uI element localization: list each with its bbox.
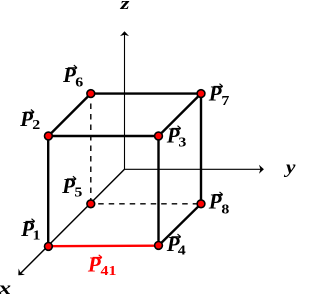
svg-text:z: z bbox=[119, 0, 129, 13]
cube edge P6-P7 (back top) bbox=[91, 92, 201, 94]
dashed hidden edge P5-P8 bbox=[98, 203, 201, 205]
label P8 bbox=[208, 190, 230, 218]
svg-text:3: 3 bbox=[178, 136, 186, 151]
axis label z bbox=[119, 0, 129, 13]
svg-text:x: x bbox=[0, 278, 11, 294]
vertex dot P1 bbox=[45, 243, 53, 251]
cube edge P4-P8 (bottom-right receding) bbox=[159, 204, 202, 246]
svg-text:6: 6 bbox=[75, 76, 83, 91]
svg-text:2: 2 bbox=[32, 118, 40, 133]
svg-text:1: 1 bbox=[33, 228, 41, 243]
axis label y bbox=[284, 158, 296, 178]
label P7 bbox=[208, 81, 230, 108]
svg-text:5: 5 bbox=[74, 185, 82, 200]
svg-text:y: y bbox=[284, 158, 296, 178]
svg-text:7: 7 bbox=[221, 94, 230, 109]
svg-text:P: P bbox=[62, 63, 76, 87]
red edge P1-P4 (vector P41) bbox=[48, 244, 158, 247]
cube edge P7-P8 (back right vertical) bbox=[200, 94, 202, 204]
cube edge P3-P4 (front right vertical) bbox=[157, 136, 159, 246]
svg-text:P: P bbox=[87, 253, 101, 277]
label P2 bbox=[19, 107, 40, 132]
vertex dot P8 bbox=[197, 200, 205, 208]
dashed hidden edge P6-P5 bbox=[90, 104, 92, 204]
vertex dot P5 bbox=[87, 200, 95, 208]
label P4 bbox=[166, 232, 187, 258]
svg-text:P: P bbox=[208, 81, 222, 105]
vertex dot P7 bbox=[197, 90, 205, 98]
vertex dot P2 bbox=[45, 132, 53, 140]
label P5 bbox=[61, 174, 82, 200]
svg-text:4: 4 bbox=[178, 244, 187, 259]
svg-text:P: P bbox=[208, 190, 222, 214]
x axis line (through P5 and P1) bbox=[21, 169, 125, 273]
vertex dot P3 bbox=[155, 132, 163, 140]
axis label x bbox=[0, 278, 11, 294]
y axis arrowhead bbox=[259, 165, 264, 174]
y axis line bbox=[125, 168, 262, 170]
z axis line bbox=[124, 33, 126, 169]
svg-text:P: P bbox=[61, 174, 75, 198]
cube edge P2-P6 (top-left receding) bbox=[48, 94, 90, 136]
svg-text:8: 8 bbox=[221, 203, 229, 218]
label P6 bbox=[62, 63, 83, 90]
z axis arrowhead bbox=[120, 31, 129, 36]
label P3 bbox=[166, 123, 187, 150]
svg-text:P: P bbox=[19, 107, 33, 131]
x axis arrowhead bbox=[15, 269, 25, 279]
vertex dot P4 bbox=[155, 242, 163, 250]
vertex dot P6 bbox=[87, 90, 95, 98]
svg-text:41: 41 bbox=[101, 264, 117, 279]
cube edge P3-P7 (top-right receding) bbox=[159, 94, 202, 136]
label P41 (red) bbox=[87, 253, 117, 279]
cube edge P2-P3 (front top) bbox=[47, 135, 160, 137]
label P1 bbox=[20, 217, 40, 243]
cube edge P1-P2 (front left vertical) bbox=[47, 136, 49, 246]
